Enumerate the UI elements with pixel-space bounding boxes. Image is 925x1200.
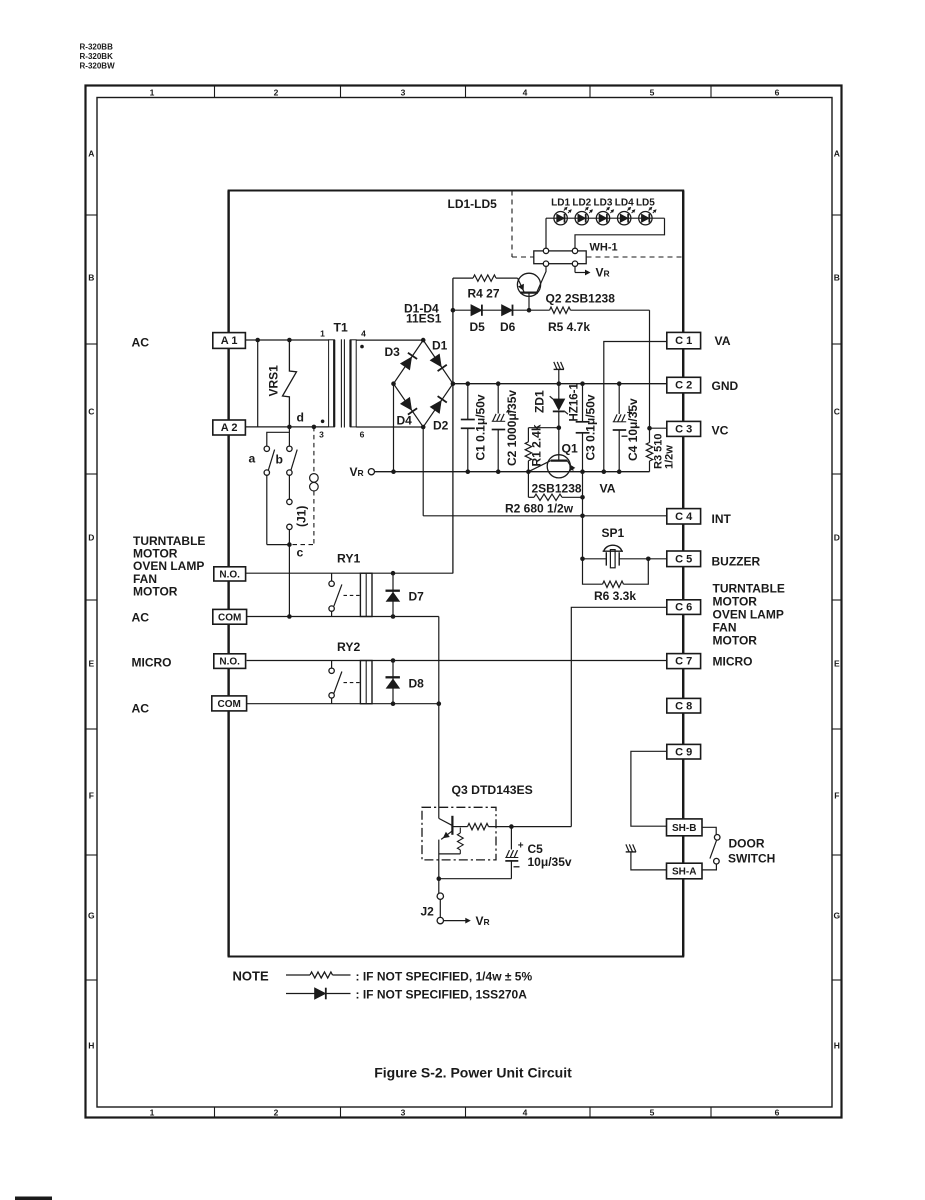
connector A1 (213, 333, 246, 349)
relay RY2 switch (331, 661, 333, 669)
svg-text:E: E (88, 659, 94, 669)
connector C6 (667, 600, 701, 615)
svg-text:C 5: C 5 (675, 553, 692, 565)
wire bridge edges (394, 340, 453, 427)
right bus wire (682, 191, 684, 957)
svg-text:MICRO: MICRO (713, 655, 753, 669)
relay coil RY2 (360, 661, 372, 704)
svg-text:C3 0.1μ/50v: C3 0.1μ/50v (584, 394, 598, 460)
buzzer SP1 (604, 545, 622, 551)
svg-text:C1 0.1μ/50v: C1 0.1μ/50v (474, 394, 488, 460)
svg-text:1: 1 (150, 88, 155, 98)
svg-text:d: d (297, 411, 304, 425)
svg-text:COM: COM (218, 612, 241, 623)
svg-text:C 4: C 4 (675, 511, 693, 523)
svg-text:LD3: LD3 (594, 198, 613, 209)
svg-text:VC: VC (712, 424, 729, 438)
wire buzzer line to C5 box (583, 558, 607, 560)
jumper J2 (438, 879, 440, 893)
LED LD2 (575, 212, 588, 225)
svg-text:C 1: C 1 (675, 335, 692, 347)
svg-text:C: C (88, 407, 94, 417)
connector C9 (667, 744, 701, 759)
svg-text:1: 1 (150, 1108, 155, 1118)
capacitor C1 (466, 381, 471, 386)
connector C2 (667, 377, 701, 393)
svg-text:C 2: C 2 (675, 380, 692, 392)
svg-text:LD4: LD4 (615, 198, 634, 209)
diode D7 (392, 573, 394, 616)
svg-text:5: 5 (650, 88, 655, 98)
svg-text:LD2: LD2 (572, 198, 591, 209)
diode D4 (401, 397, 412, 410)
internal resistor Q3 base-emitter (459, 828, 461, 833)
wire Q3 base node up to C6 line (511, 826, 571, 828)
note diode symbol (286, 993, 315, 995)
svg-text:VA: VA (715, 334, 731, 348)
svg-text:Q3 DTD143ES: Q3 DTD143ES (452, 783, 533, 797)
border column ticks and numbers (214, 86, 216, 98)
connector A2 (213, 420, 246, 435)
svg-text:RY1: RY1 (337, 552, 360, 566)
wire secondary bottom to bridge (356, 426, 423, 428)
wire Q3 emitter to C5 bottom (439, 878, 512, 880)
svg-text:H: H (834, 1041, 840, 1051)
node ZD1-R1-Q1 (557, 425, 562, 430)
svg-text:R-320BW: R-320BW (80, 62, 116, 71)
connector WH-1 (534, 251, 586, 264)
svg-text:V: V (350, 465, 358, 479)
svg-text:R: R (604, 269, 610, 279)
wire bridge bottom down to INT line (422, 427, 424, 516)
wire ground to GND rail (558, 369, 560, 383)
connector COM turntable (213, 609, 247, 624)
diode D3 (401, 357, 412, 370)
svg-text:LD1: LD1 (551, 198, 570, 209)
internal base resistor Q3 (454, 826, 468, 828)
transistor Q2 (517, 273, 540, 296)
svg-text:T1: T1 (334, 321, 348, 335)
svg-text:G: G (88, 911, 95, 921)
svg-text:11ES1: 11ES1 (406, 312, 442, 326)
ground symbol above ZD1 (554, 368, 564, 370)
ground symbol at SH-A (626, 851, 636, 853)
svg-text:4: 4 (523, 88, 528, 98)
wire COM rail RY1 (247, 616, 439, 618)
svg-text:V: V (596, 266, 604, 280)
svg-text:D5: D5 (470, 320, 486, 334)
svg-text:C2 1000μ/35v: C2 1000μ/35v (505, 390, 519, 466)
diode D8 (392, 661, 394, 704)
resistor R3 (649, 428, 651, 442)
svg-text:D8: D8 (409, 677, 425, 691)
wire WH-1 to VR arrow (574, 266, 576, 272)
svg-text:5: 5 (650, 1108, 655, 1118)
wire RY1 COM corner down to Q3 (438, 617, 440, 819)
svg-text:6: 6 (775, 1108, 780, 1118)
svg-text:V: V (476, 914, 484, 928)
connector COM micro (212, 696, 247, 711)
wire C3 bottom down through R2 node to INT and buzzer (582, 472, 584, 559)
svg-text:MOTOR: MOTOR (133, 584, 178, 598)
connector C8 (667, 698, 701, 713)
svg-text:COM: COM (218, 699, 241, 710)
bridge nodes (421, 338, 426, 343)
outer border frame (86, 86, 842, 1118)
svg-text:LD1-LD5: LD1-LD5 (448, 197, 498, 211)
polarity dot primary (321, 420, 325, 424)
wire parallel branch A1-A2 (257, 340, 259, 427)
svg-text:GND: GND (712, 379, 739, 393)
svg-text:R6 3.3k: R6 3.3k (594, 589, 636, 603)
wire INT line to C4 box (423, 515, 667, 517)
wire GND vertical from R4 corner down to RY1 rail (452, 278, 454, 573)
resistor R2 (527, 472, 529, 498)
svg-text:FAN: FAN (713, 621, 737, 635)
svg-text:VRS1: VRS1 (267, 365, 281, 397)
svg-text:TURNTABLE: TURNTABLE (713, 582, 785, 596)
svg-text:VA: VA (600, 482, 616, 496)
svg-text:10μ/35v: 10μ/35v (528, 855, 572, 869)
svg-text:N.O.: N.O. (219, 657, 240, 668)
svg-text:F: F (89, 791, 94, 801)
svg-text:: IF NOT SPECIFIED, 1/4w ± 5%: : IF NOT SPECIFIED, 1/4w ± 5% (356, 969, 533, 983)
svg-text:c: c (297, 546, 304, 560)
diode D6 (502, 305, 513, 316)
svg-text:1/2w: 1/2w (664, 445, 676, 469)
svg-text:SH-B: SH-B (672, 823, 696, 834)
svg-text:ZD1: ZD1 (533, 390, 547, 413)
connector N.O. turntable (214, 567, 246, 581)
dash-dot box Q3 (422, 807, 496, 860)
svg-text:D: D (88, 533, 94, 543)
left bus wire (227, 191, 229, 957)
svg-text:C 8: C 8 (675, 700, 692, 712)
svg-text:D7: D7 (409, 590, 425, 604)
connector C5 (667, 551, 701, 567)
wire VR rail (375, 471, 650, 473)
svg-text:MOTOR: MOTOR (713, 634, 758, 648)
svg-text:C 6: C 6 (675, 602, 692, 614)
svg-text:R4 27: R4 27 (468, 287, 500, 301)
switch a (267, 432, 290, 446)
svg-text:A 2: A 2 (221, 422, 238, 434)
svg-text:AC: AC (132, 611, 150, 625)
svg-text:MOTOR: MOTOR (713, 595, 758, 609)
arrow J2 to VR (444, 920, 468, 922)
mechanical link RY2 (344, 682, 361, 684)
svg-text:D1: D1 (432, 339, 448, 353)
transistor Q1 (558, 428, 560, 456)
svg-text:E: E (834, 659, 840, 669)
wire C9 loop to SH-B (631, 751, 667, 826)
svg-text:RY2: RY2 (337, 640, 360, 654)
svg-text:INT: INT (712, 512, 732, 526)
wire LED row (546, 217, 665, 219)
relay coil RY1 (360, 573, 372, 616)
wire SH-B to door switch (702, 827, 716, 834)
dashed boundary of LED board (511, 191, 513, 258)
svg-text:D2: D2 (433, 419, 449, 433)
svg-text:Q1: Q1 (562, 442, 578, 456)
connector N.O. micro (214, 654, 246, 669)
wire LED row right to WH-1 (575, 218, 665, 248)
capacitor C5 electrolytic (510, 827, 512, 850)
LED LD3 (596, 212, 609, 225)
svg-text:6: 6 (360, 430, 365, 440)
wire C1 box feed down to VA rail (604, 342, 667, 472)
svg-text:J2: J2 (421, 905, 435, 919)
node d (287, 425, 292, 430)
svg-text:Q2 2SB1238: Q2 2SB1238 (546, 292, 616, 306)
LED LD5 (639, 212, 652, 225)
resistor R1 (528, 427, 558, 429)
connector C7 (667, 654, 701, 669)
svg-text:F: F (834, 791, 839, 801)
door switch (714, 835, 720, 841)
svg-text:D: D (834, 533, 840, 543)
svg-text:MICRO: MICRO (132, 656, 172, 670)
svg-text:R-320BK: R-320BK (80, 52, 114, 61)
svg-text:AC: AC (132, 336, 150, 350)
relay RY1 switch (331, 573, 333, 581)
svg-text:C 9: C 9 (675, 746, 692, 758)
svg-text:R5 4.7k: R5 4.7k (548, 320, 590, 334)
svg-text:D4: D4 (397, 414, 413, 428)
svg-text:H: H (88, 1041, 94, 1051)
border row ticks and letters (86, 214, 98, 216)
svg-text:C 3: C 3 (675, 424, 692, 436)
dashed alternate path with inductor (313, 427, 315, 472)
wire GND rail (453, 383, 667, 385)
wire LED row left down to WH-1 (545, 218, 547, 248)
wire C6 line (571, 607, 667, 826)
capacitor C3 (582, 384, 584, 422)
svg-text:G: G (833, 911, 840, 921)
svg-text:2SB1238: 2SB1238 (532, 482, 582, 496)
svg-text:C: C (834, 407, 840, 417)
svg-text:4: 4 (523, 1108, 528, 1118)
wire ground to SH-A (631, 852, 667, 870)
svg-text:DOOR: DOOR (729, 837, 765, 851)
varistor VRS1 (283, 340, 297, 427)
svg-text:WH-1: WH-1 (590, 242, 618, 254)
wire N.O. rail to RY1 (246, 572, 454, 574)
capacitor C2 electrolytic (496, 381, 501, 386)
svg-text:LD5: LD5 (636, 198, 655, 209)
bottom-left partial mark (15, 1197, 52, 1200)
svg-text:(J1): (J1) (295, 506, 309, 527)
diode D1 (430, 354, 441, 367)
wire MICRO rail to C7 (247, 660, 667, 662)
svg-text:4: 4 (361, 329, 366, 339)
mechanical link RY1 (344, 594, 361, 596)
note resistor symbol (286, 974, 310, 976)
schematic enclosure box (229, 191, 684, 957)
connector C4 (667, 509, 701, 524)
wire A1 to transformer primary (245, 339, 328, 341)
svg-text:2: 2 (274, 1108, 279, 1118)
svg-text:C4 10μ/35v: C4 10μ/35v (626, 398, 640, 461)
VR terminal circle (368, 469, 374, 475)
switch b (288, 427, 290, 446)
svg-text:D6: D6 (500, 320, 516, 334)
wire secondary top to bridge (356, 339, 423, 341)
node c (287, 542, 292, 547)
svg-text:HZ16-1: HZ16-1 (569, 383, 581, 422)
svg-text:a: a (249, 452, 256, 466)
LED LD4 (618, 212, 631, 225)
LED LD1 (554, 212, 567, 225)
wire bridge left down to VR rail (393, 384, 395, 472)
svg-text:SH-A: SH-A (672, 867, 696, 878)
svg-text:A: A (834, 149, 840, 159)
svg-text:Figure S-2. Power Unit Circuit: Figure S-2. Power Unit Circuit (374, 1065, 572, 1081)
connector SH-B (667, 819, 703, 836)
inner border frame (97, 98, 832, 1108)
wire WH-1 to Q2 emitter (537, 266, 546, 292)
svg-text:3: 3 (401, 88, 406, 98)
jumper J1 terminals (287, 499, 292, 504)
svg-text:R2 680 1/2w: R2 680 1/2w (505, 502, 574, 516)
resistor R4 (453, 277, 473, 279)
svg-text:C 7: C 7 (675, 656, 692, 668)
svg-text:SWITCH: SWITCH (728, 852, 775, 866)
wire A2 to transformer primary (245, 426, 328, 428)
svg-text:: IF NOT SPECIFIED, 1SS270A: : IF NOT SPECIFIED, 1SS270A (356, 988, 528, 1002)
svg-text:A: A (88, 149, 94, 159)
svg-text:b: b (276, 453, 283, 467)
diode D5 (453, 309, 471, 311)
svg-text:B: B (834, 273, 840, 283)
wire COM rail RY2 (247, 703, 439, 705)
connector C1 (667, 332, 701, 348)
svg-text:+: + (518, 841, 524, 852)
svg-text:A 1: A 1 (221, 335, 238, 347)
polarity dot secondary (360, 345, 364, 349)
svg-text:D3: D3 (385, 345, 401, 359)
resistor R5 (550, 307, 571, 313)
svg-text:R1 2.4k: R1 2.4k (530, 424, 544, 466)
svg-text:2: 2 (274, 88, 279, 98)
wire VC line to C3 box (650, 427, 667, 429)
svg-text:3: 3 (401, 1108, 406, 1118)
transistor Q3 (439, 818, 452, 825)
connector C3 (667, 421, 701, 436)
svg-text:AC: AC (132, 702, 150, 716)
svg-text:3: 3 (319, 430, 324, 440)
node Q3 base line (509, 824, 514, 829)
svg-text:R-320BB: R-320BB (80, 43, 114, 52)
svg-text:N.O.: N.O. (219, 570, 240, 581)
capacitor C4 electrolytic (618, 384, 620, 414)
wire node c down to COM rail (288, 545, 290, 617)
connector SH-A (667, 863, 703, 879)
svg-text:BUZZER: BUZZER (712, 555, 761, 569)
diode D2 (430, 401, 441, 414)
svg-text:1: 1 (320, 329, 325, 339)
resistor R6 (583, 559, 603, 584)
svg-text:R: R (358, 468, 364, 478)
zener diode ZD1 (558, 384, 560, 399)
svg-text:6: 6 (775, 88, 780, 98)
svg-text:NOTE: NOTE (233, 969, 269, 984)
svg-text:C5: C5 (528, 842, 544, 856)
svg-text:OVEN LAMP: OVEN LAMP (713, 608, 784, 622)
svg-text:R: R (484, 917, 490, 927)
svg-text:SP1: SP1 (602, 526, 625, 540)
svg-text:B: B (88, 273, 94, 283)
wire R5 down to VC line (649, 310, 651, 428)
